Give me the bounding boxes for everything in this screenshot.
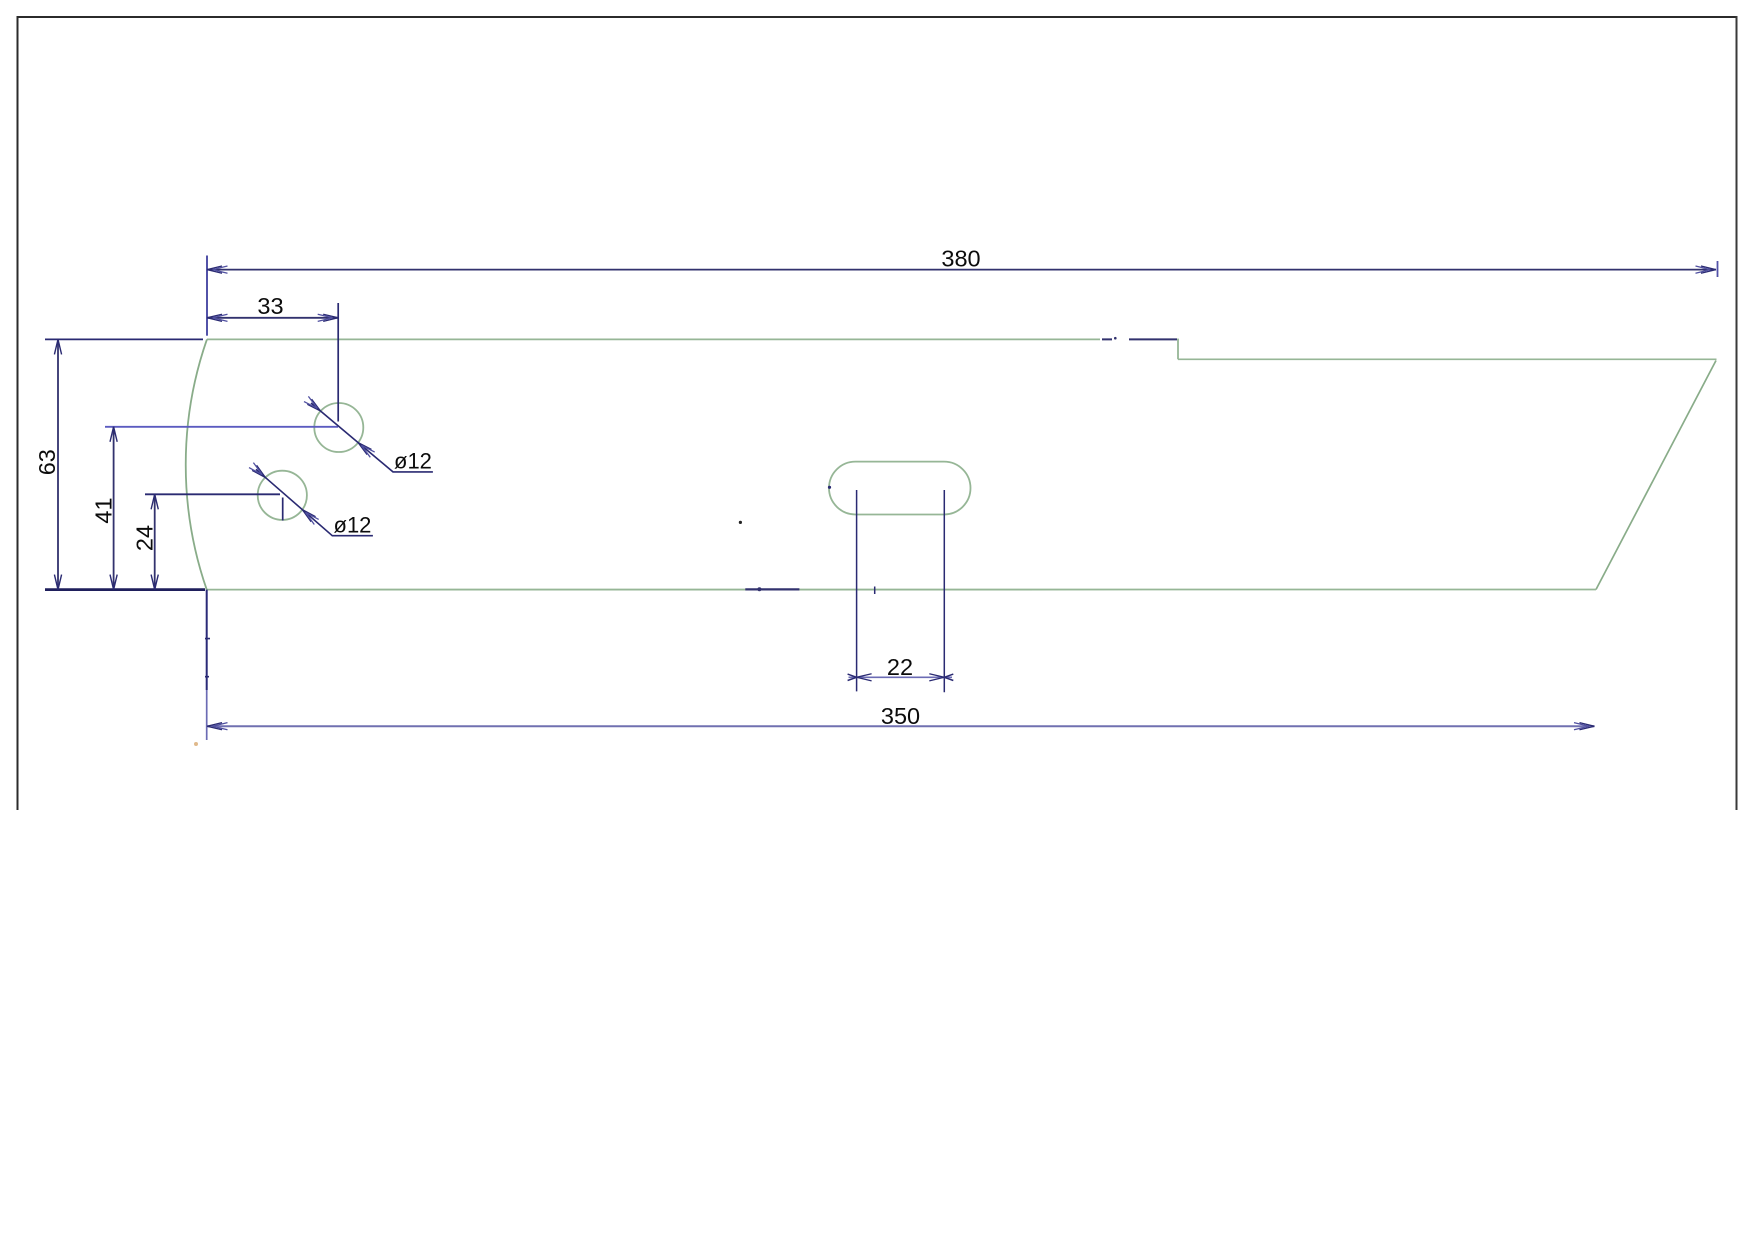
part outline bottom edge	[207, 589, 1596, 591]
leader hole 2 arrows	[252, 465, 265, 477]
svg-text:63: 63	[34, 449, 60, 475]
part outline lower top edge	[1178, 358, 1717, 360]
part outline right bevel edge	[1596, 361, 1716, 590]
hole 1	[314, 403, 363, 452]
svg-text:ø12: ø12	[334, 513, 372, 538]
dim 350 line	[207, 725, 1595, 727]
hole 2	[258, 471, 307, 520]
part outline notch step	[1177, 339, 1179, 360]
svg-text:380: 380	[941, 246, 980, 272]
dim 380 line	[207, 269, 1716, 271]
leader hole 1 arrows	[307, 399, 320, 411]
part outline top edge	[207, 338, 1100, 340]
dim 24 line	[154, 494, 156, 589]
dim 63 extension top	[45, 338, 203, 340]
hidden-line dashes on top edge	[1102, 338, 1177, 340]
dim 41 extension	[105, 426, 338, 428]
dim 33 arrows	[207, 314, 222, 321]
dim 33 line	[207, 317, 338, 319]
dim 41 arrows	[110, 427, 117, 442]
svg-text:33: 33	[257, 293, 283, 319]
hole 2 center tick	[282, 498, 284, 521]
page frame top	[17, 16, 1738, 18]
page frame right	[1736, 16, 1738, 810]
dim 380 arrows	[207, 266, 222, 273]
dim 22 extension lines	[856, 490, 858, 691]
part outline left curved end	[186, 339, 207, 589]
dim 380 extension tick right	[1717, 261, 1719, 277]
svg-text:22: 22	[887, 654, 913, 680]
scan speck	[194, 742, 198, 746]
leader hole 2	[256, 469, 373, 535]
slot	[829, 462, 971, 515]
stray dot	[739, 521, 742, 524]
leader hole 1	[311, 403, 433, 472]
dim 24 extension	[145, 493, 280, 495]
svg-text:24: 24	[132, 525, 158, 551]
dim 22 line	[849, 676, 953, 678]
slot left mid dot	[828, 486, 831, 489]
dim 380 extension line left	[206, 256, 208, 336]
ticks on 350 extension	[205, 639, 210, 677]
page frame left	[17, 16, 19, 810]
dim 33 extension through hole 1	[337, 303, 339, 422]
dim 41 line	[113, 427, 115, 590]
svg-text:41: 41	[91, 497, 117, 523]
svg-text:ø12: ø12	[394, 449, 432, 474]
svg-text:350: 350	[881, 703, 920, 729]
dim 63 arrows	[54, 339, 61, 354]
dim 24 arrows	[151, 494, 158, 509]
hidden-line dash on bottom edge	[745, 588, 799, 590]
dim 350 extension line	[206, 590, 208, 690]
dim 350 arrows	[207, 723, 222, 730]
dim 22 arrows	[857, 674, 872, 681]
dim 63 line	[57, 339, 59, 589]
dim 63 extension bottom (thick)	[45, 588, 205, 591]
